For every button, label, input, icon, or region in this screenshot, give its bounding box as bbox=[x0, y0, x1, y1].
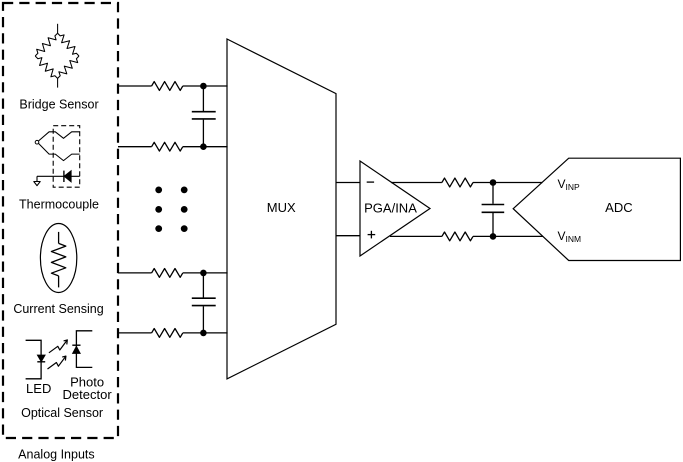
light emission arrow 2 bbox=[48, 356, 66, 369]
svg-text:PGA/INA: PGA/INA bbox=[364, 200, 417, 215]
wire: R6 to ADC VINM bbox=[473, 235, 543, 237]
ellipsis dots for additional channels bbox=[155, 187, 187, 233]
svg-text:Optical Sensor: Optical Sensor bbox=[21, 406, 103, 420]
wire: channel 2 into MUX bbox=[183, 146, 228, 148]
wire: channel 3 lead bbox=[118, 272, 152, 274]
MUX trapezoid bbox=[227, 39, 336, 379]
current sensing ellipse bbox=[40, 224, 76, 293]
thermocouple top wire with junction chevron bbox=[39, 132, 80, 141]
svg-text:LED: LED bbox=[26, 381, 51, 396]
junction dot VINP node bbox=[490, 179, 497, 186]
ground symbol bbox=[34, 176, 40, 185]
label: Optical Sensor bbox=[21, 406, 103, 420]
svg-text:Bridge Sensor: Bridge Sensor bbox=[19, 98, 98, 112]
wire: channel 2 lead bbox=[118, 146, 152, 148]
label: Bridge Sensor bbox=[19, 98, 98, 112]
photodiode (points up) with bar bbox=[72, 345, 80, 353]
wire: R5 to ADC VINP bbox=[473, 182, 543, 184]
junction dot VINM node bbox=[490, 233, 497, 240]
thermocouple terminal circle bbox=[35, 140, 39, 144]
photo detector bracket wiring bbox=[76, 331, 92, 368]
svg-text:Analog Inputs: Analog Inputs bbox=[18, 448, 94, 462]
thermocouple dashed box bbox=[53, 126, 79, 188]
bridge sensor (Wheatstone bridge of four resistors) bbox=[35, 24, 79, 88]
wire: channel 1 lead bbox=[118, 85, 152, 87]
cold-junction diode wire bbox=[37, 175, 80, 177]
minus input sign bbox=[367, 181, 374, 183]
svg-text:VINM: VINM bbox=[558, 229, 582, 244]
resistor R5 (top output) bbox=[442, 178, 473, 187]
junction dot channel 3 bbox=[200, 270, 207, 277]
junction dot channel 1 bbox=[200, 83, 207, 90]
label: MUX bbox=[267, 200, 296, 215]
wire: MUX output to PGA non-inverting input bbox=[336, 235, 360, 237]
light emission arrow 1 bbox=[49, 340, 67, 353]
svg-text:ADC: ADC bbox=[605, 200, 632, 215]
wire: channel 1 into MUX bbox=[183, 85, 228, 87]
label: ADC bbox=[605, 200, 632, 215]
resistor on channel 3 bbox=[152, 269, 183, 278]
pin label: VINP bbox=[558, 177, 581, 192]
junction dot channel 4 bbox=[200, 330, 207, 337]
wire: channel 4 lead bbox=[118, 332, 152, 334]
ADC block (pentagon pointing left) bbox=[513, 158, 680, 260]
label: Photo Detector (two lines) bbox=[63, 375, 113, 402]
resistor on channel 4 bbox=[152, 329, 183, 338]
label: LED bbox=[26, 381, 51, 396]
wire: channel 4 into MUX bbox=[183, 332, 228, 334]
LED bracket wiring bbox=[26, 340, 41, 379]
thermocouple bottom wire with junction chevron bbox=[39, 144, 80, 161]
plus input sign bbox=[368, 231, 376, 239]
resistor R6 (bottom output) bbox=[442, 232, 473, 241]
svg-text:VINP: VINP bbox=[558, 177, 581, 192]
resistor on channel 2 bbox=[152, 142, 183, 151]
svg-text:Thermocouple: Thermocouple bbox=[19, 198, 99, 212]
diode (points left) with cathode bar bbox=[64, 171, 71, 182]
svg-text:Detector: Detector bbox=[63, 387, 113, 402]
label: PGA/INA bbox=[364, 200, 417, 215]
differential capacitor C3 bbox=[482, 183, 505, 237]
label: Thermocouple bbox=[19, 198, 99, 212]
wire: PGA output top bbox=[391, 182, 442, 184]
label: Analog Inputs bbox=[18, 448, 94, 462]
analog inputs dashed boundary box bbox=[3, 3, 118, 438]
svg-text:Current Sensing: Current Sensing bbox=[13, 302, 103, 316]
shunt resistor inside ellipse bbox=[51, 232, 65, 288]
LED diode (points down) with bar bbox=[37, 355, 45, 362]
filter capacitor C1 between channel 1 and 2 bbox=[192, 86, 216, 147]
pin label: VINM bbox=[558, 229, 582, 244]
PGA/INA amplifier triangle bbox=[360, 161, 430, 256]
resistor on channel 1 bbox=[152, 82, 183, 91]
svg-text:MUX: MUX bbox=[267, 200, 296, 215]
wire: MUX output to PGA inverting input bbox=[336, 182, 360, 184]
wire: PGA output bottom bbox=[390, 235, 442, 237]
filter capacitor C2 between channel 3 and 4 bbox=[192, 273, 216, 333]
junction dot channel 2 bbox=[200, 143, 207, 150]
wire: channel 3 into MUX bbox=[183, 272, 228, 274]
label: Current Sensing bbox=[13, 302, 103, 316]
